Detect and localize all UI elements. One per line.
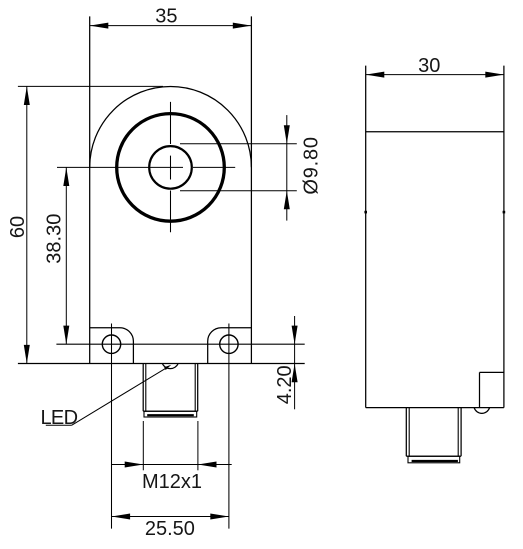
LED dome side view: [474, 408, 490, 414]
dimension 30 right arrow: [485, 72, 504, 78]
dimension 35 right arrow: [233, 23, 252, 29]
dimension 4.20 line: [294, 316, 296, 409]
dimension 25.50 right arrow: [210, 514, 229, 520]
side connector thread right inner: [457, 408, 459, 457]
dimension M12x1 extension left: [142, 421, 144, 470]
side view left edge with 30 extension: [365, 66, 367, 408]
LED window top edge side view: [480, 371, 504, 373]
side connector thread left outer: [405, 408, 407, 457]
connector tip thick edge front: [147, 414, 194, 416]
dimension 35 left arrow: [90, 23, 109, 29]
dimension 60 top arrow: [24, 86, 30, 105]
LED leader underline: [46, 424, 72, 426]
svg-text:Ø9.80: Ø9.80: [301, 136, 323, 194]
LED window vertical edge side view: [479, 372, 481, 407]
connector thread left outer line: [142, 364, 144, 412]
svg-text:35: 35: [155, 6, 177, 28]
front view left edge with 35 extension line: [89, 16, 91, 363]
svg-text:M12x1: M12x1: [142, 471, 202, 493]
circle center line horizontal / 38.30 extension: [57, 166, 235, 168]
connector thread left inner line: [145, 364, 147, 412]
dimension 30 left arrow: [366, 72, 385, 78]
connector thread bottom line: [143, 410, 198, 412]
dimension 30 line: [366, 74, 504, 76]
dimension 38.30 bottom arrow: [63, 326, 69, 345]
left mounting ear: [90, 328, 134, 364]
side connector tip outline: [408, 456, 460, 463]
dimension 60 line: [26, 86, 28, 363]
circle center line vertical: [170, 102, 172, 232]
right mounting ear: [208, 328, 252, 364]
side connector thread right outer: [460, 408, 462, 457]
dimension 25.50 left arrow: [112, 514, 131, 520]
dimension 4.20 upper arrow: [292, 326, 298, 345]
right hole center line vertical / 25.50 extension: [228, 324, 230, 529]
LED leader line: [72, 368, 166, 425]
LED leader arrowhead: [164, 365, 171, 370]
dimension dia 9.80 extension top: [180, 143, 297, 145]
sensing face outer circle: [117, 114, 225, 222]
svg-text:60: 60: [7, 216, 29, 238]
side view bottom edge: [366, 407, 504, 409]
LED dome front view: [162, 364, 178, 369]
connector thread right outer line: [197, 364, 199, 412]
sensing face inner circle: [149, 146, 192, 189]
front view right edge with 35 extension line: [250, 16, 252, 363]
dimension M12x1 right arrow: [198, 462, 217, 468]
mounting hole center line: [56, 343, 304, 345]
left mounting hole: [102, 335, 120, 353]
dimension 35 line: [90, 25, 252, 27]
dimension 38.30 line: [65, 167, 67, 344]
dimension M12x1 left arrow: [125, 462, 144, 468]
svg-text:38.30: 38.30: [43, 214, 65, 264]
left hole center line vertical / 25.50 extension: [111, 324, 113, 529]
front view bottom edge with extensions: [18, 363, 305, 365]
dimension 25.50 line: [112, 516, 229, 518]
dimension dia 9.80 extension bottom: [180, 190, 297, 192]
side view top edge: [366, 131, 504, 133]
dimension 38.30 top arrow: [63, 167, 69, 186]
dimension 60 extension line top: [18, 85, 163, 87]
dimension M12x1 extension right: [197, 421, 199, 470]
side connector thread bottom: [406, 455, 461, 457]
side view right edge with 30 extension: [503, 66, 505, 408]
dimension dia 9.80 line: [286, 115, 288, 221]
side view left edge joint tick: [364, 211, 367, 214]
side connector thread left inner: [408, 408, 410, 457]
dimension M12x1 line: [112, 464, 232, 466]
svg-text:4.20: 4.20: [274, 365, 296, 404]
dimension 4.20 lower arrow: [292, 364, 298, 383]
svg-text:30: 30: [418, 55, 440, 77]
dimension dia 9.80 lower arrow: [284, 191, 290, 210]
connector tip outline front: [144, 411, 197, 417]
dimension 60 bottom arrow: [24, 345, 30, 364]
dimension dia 9.80 upper arrow: [284, 125, 290, 144]
svg-text:25.50: 25.50: [145, 518, 195, 540]
connector thread right inner line: [194, 364, 196, 412]
svg-text:LED: LED: [41, 407, 78, 429]
right mounting hole: [220, 335, 238, 353]
front view top arch: [90, 86, 252, 167]
side connector tip thick edge: [412, 460, 458, 462]
side view right edge joint tick: [503, 211, 506, 214]
